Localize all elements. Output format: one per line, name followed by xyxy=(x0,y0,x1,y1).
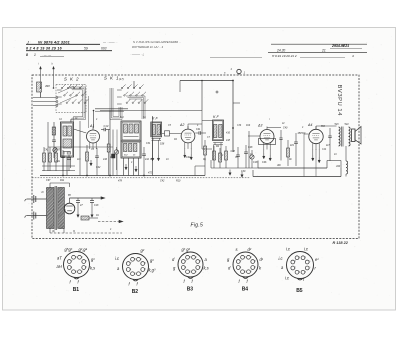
svg-text:Δ2: Δ2 xyxy=(179,123,184,127)
svg-text:i.c: i.c xyxy=(304,247,308,252)
svg-text:B4: B4 xyxy=(242,287,249,293)
svg-text:· — ·—: · — ·— xyxy=(42,53,51,57)
svg-text:BV3PU 14: BV3PU 14 xyxy=(336,85,342,117)
svg-text:C31: C31 xyxy=(146,142,151,145)
svg-text:K F: K F xyxy=(213,115,219,119)
svg-text:Δ3: Δ3 xyxy=(257,123,262,127)
svg-text:C42: C42 xyxy=(150,158,155,161)
svg-text:R 138 22: R 138 22 xyxy=(333,241,349,245)
svg-text:H 6.91 19 20 21 2: H 6.91 19 20 21 2 xyxy=(272,54,297,58)
svg-text:498: 498 xyxy=(45,84,50,88)
svg-text:472: 472 xyxy=(148,172,153,175)
svg-text:B1: B1 xyxy=(73,287,80,293)
svg-text:C46: C46 xyxy=(262,161,267,164)
svg-text:C41: C41 xyxy=(196,128,201,131)
svg-text:C41: C41 xyxy=(56,160,61,163)
svg-text:C42: C42 xyxy=(96,166,101,169)
svg-text:C38: C38 xyxy=(231,150,236,153)
svg-text:S K 2: S K 2 xyxy=(64,77,80,82)
svg-text:C18: C18 xyxy=(253,161,258,164)
svg-text:524: 524 xyxy=(345,123,350,126)
svg-text:d²: d² xyxy=(248,247,252,252)
svg-text:(4): (4) xyxy=(52,230,55,233)
svg-text:C97: C97 xyxy=(46,179,51,182)
svg-text:i.c: i.c xyxy=(115,256,119,261)
svg-text:R11: R11 xyxy=(60,179,65,182)
svg-text:C44: C44 xyxy=(186,156,191,159)
svg-text:478: 478 xyxy=(118,180,123,183)
svg-text:g¹: g¹ xyxy=(91,257,95,262)
svg-text:J: J xyxy=(26,41,29,45)
svg-text:s: s xyxy=(236,247,238,252)
svg-text:e¹: e¹ xyxy=(315,257,319,262)
svg-text:C42: C42 xyxy=(160,180,165,183)
svg-text:C41: C41 xyxy=(44,149,49,152)
svg-text:d¹: d¹ xyxy=(260,257,264,262)
svg-text:g⁵g³: g⁵g³ xyxy=(65,247,73,252)
svg-text:R10: R10 xyxy=(176,180,181,183)
svg-text:g²,g⁴: g²,g⁴ xyxy=(79,247,88,252)
svg-text:B5: B5 xyxy=(296,288,303,294)
svg-text:D: D xyxy=(42,190,44,194)
svg-text:· ——— · L: · ——— · L xyxy=(130,52,145,56)
svg-text:i.c: i.c xyxy=(279,256,283,261)
svg-text:k,g³: k,g³ xyxy=(149,268,156,273)
svg-text:ROTTERDAM 31 ·HU ·· 4: ROTTERDAM 31 ·HU ·· 4 xyxy=(132,45,164,49)
svg-text:(17): (17) xyxy=(119,77,124,81)
svg-text:AW: AW xyxy=(335,165,341,168)
svg-text:aH: aH xyxy=(57,264,62,269)
svg-text:B2: B2 xyxy=(132,289,139,295)
svg-text:B3: B3 xyxy=(187,287,194,293)
svg-text:N V PHILIPS GLOEILAMPENFABR ··: N V PHILIPS GLOEILAMPENFABR ·· xyxy=(133,40,181,44)
svg-text:416: 416 xyxy=(226,132,231,135)
svg-text:g³ g²: g³ g² xyxy=(182,247,191,252)
svg-text:K F: K F xyxy=(152,117,158,121)
svg-text:4: 4 xyxy=(352,54,354,58)
svg-text:418: 418 xyxy=(226,139,231,142)
svg-text:g²: g² xyxy=(141,248,145,253)
svg-text:i.c: i.c xyxy=(286,247,290,252)
svg-text:g¹: g¹ xyxy=(150,258,154,263)
svg-text:Nr 9876 4/2 3201: Nr 9876 4/2 3201 xyxy=(38,41,70,45)
svg-text:k,s: k,s xyxy=(204,266,209,271)
svg-text:603: 603 xyxy=(101,47,107,51)
svg-text:— · —— ··: — · —— ·· xyxy=(102,40,118,44)
svg-text:C44: C44 xyxy=(322,148,327,151)
svg-text:C18: C18 xyxy=(94,204,99,207)
svg-text:6 2 4 8 19 36 29 16: 6 2 4 8 19 36 29 16 xyxy=(26,47,62,51)
svg-text:S38: S38 xyxy=(160,143,165,146)
svg-text:C36: C36 xyxy=(237,125,242,127)
svg-text:R16: R16 xyxy=(246,125,251,127)
svg-text:i.c: i.c xyxy=(285,276,289,281)
svg-text:Fig.5: Fig.5 xyxy=(191,222,204,228)
svg-text:523: 523 xyxy=(335,123,340,126)
svg-text:S K 1: S K 1 xyxy=(104,76,120,81)
svg-text:24 20: 24 20 xyxy=(276,49,285,53)
svg-text:8: 8 xyxy=(26,53,28,57)
svg-text:k,s: k,s xyxy=(90,266,95,271)
svg-text:412: 412 xyxy=(145,158,150,161)
svg-text:1: 1 xyxy=(34,53,36,57)
svg-text:Δ4: Δ4 xyxy=(307,123,312,127)
svg-text:21: 21 xyxy=(321,49,326,53)
svg-text:416: 416 xyxy=(103,158,108,161)
svg-text:59: 59 xyxy=(84,47,88,51)
svg-text:C13: C13 xyxy=(104,124,109,128)
svg-text:AW: AW xyxy=(276,164,282,167)
svg-text:C40: C40 xyxy=(283,127,288,130)
